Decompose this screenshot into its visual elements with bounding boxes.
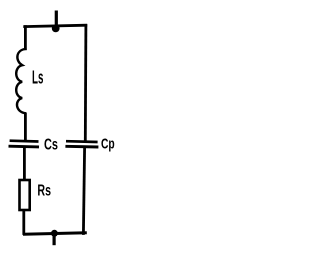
svg-text:Cp: Cp	[101, 137, 115, 153]
node bottom terminal stub	[52, 234, 55, 246]
wire left branch upper	[24, 25, 27, 50]
wire inductor to Cs	[24, 113, 27, 142]
wire right branch upper	[84, 24, 87, 142]
svg-text:Ls: Ls	[32, 66, 43, 87]
junction dot top	[52, 25, 60, 33]
capacitor Cp bottom plate	[65, 145, 98, 149]
svg-text:Rs: Rs	[37, 183, 51, 200]
capacitor Cs top plate	[10, 139, 39, 143]
node top terminal stub	[55, 11, 58, 28]
svg-text:Cs: Cs	[44, 137, 58, 154]
wire bottom horizontal	[23, 233, 87, 235]
capacitor Cp top plate	[66, 140, 98, 144]
wire right branch lower	[83, 147, 84, 235]
wire top horizontal	[23, 25, 87, 26]
capacitor Cs bottom plate	[9, 145, 40, 149]
junction dot bottom	[51, 230, 58, 237]
inductor Ls	[16, 49, 26, 114]
resistor Rs	[20, 180, 30, 210]
wire Cs to Rs	[23, 147, 26, 181]
wire Rs to bottom	[22, 210, 25, 235]
